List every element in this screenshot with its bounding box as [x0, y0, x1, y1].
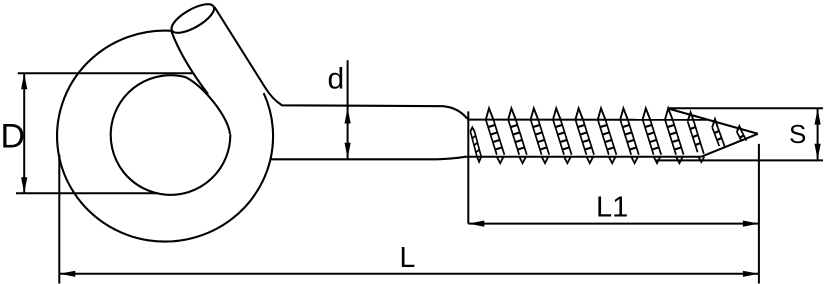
svg-text:d: d [328, 63, 345, 96]
svg-text:L1: L1 [596, 192, 628, 224]
svg-text:D: D [1, 117, 26, 155]
svg-text:L: L [400, 242, 416, 274]
svg-text:S: S [789, 119, 806, 149]
